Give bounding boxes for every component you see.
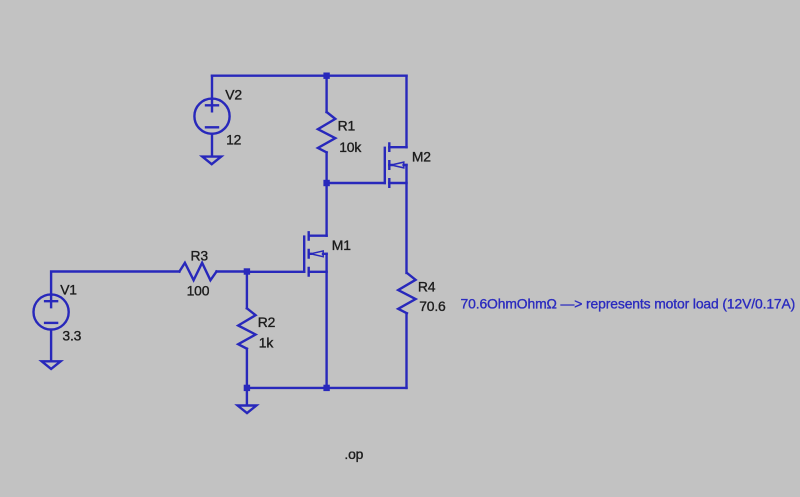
- wire R2 bottom lead: [246, 349, 248, 388]
- resistor R3: [179, 263, 216, 280]
- svg-text:R3: R3: [191, 248, 209, 264]
- svg-text:.op: .op: [344, 446, 363, 462]
- wire V2 top lead: [211, 76, 213, 99]
- ground (V2): [202, 157, 221, 165]
- ground (V1): [42, 361, 61, 369]
- wire M1 drain: [325, 183, 327, 236]
- wire M2 source to R4: [405, 165, 407, 273]
- resistor R1: [318, 112, 335, 152]
- wire R1 bottom lead: [325, 152, 327, 183]
- wire R1 top lead: [325, 76, 327, 112]
- transistor M1: [304, 232, 326, 275]
- svg-text:R2: R2: [258, 314, 276, 330]
- svg-text:R1: R1: [338, 118, 356, 134]
- transistor M2: [385, 144, 407, 187]
- svg-text:70.6OhmOhmΩ —> represents moto: 70.6OhmOhmΩ —> represents motor load (12…: [461, 295, 796, 311]
- wire V1 bottom lead: [50, 330, 52, 361]
- voltage source V1: [34, 294, 69, 329]
- svg-text:V2: V2: [225, 86, 242, 102]
- wire V2 bottom lead: [211, 134, 213, 157]
- svg-text:1k: 1k: [259, 335, 274, 351]
- ground (main): [238, 388, 257, 413]
- junction node R1 top: [323, 73, 329, 79]
- svg-text:70.6: 70.6: [419, 298, 446, 314]
- svg-text:3.3: 3.3: [62, 327, 81, 343]
- voltage source V2: [194, 99, 229, 134]
- wire M2 gate: [327, 182, 385, 184]
- wire R2 top lead: [246, 272, 248, 309]
- wire bottom rail: [247, 387, 407, 389]
- svg-text:100: 100: [187, 282, 210, 298]
- junction node gate M2: [323, 180, 329, 186]
- wire R4 bottom lead: [405, 313, 407, 388]
- wire M2 drain: [405, 76, 407, 148]
- wire M1 gate: [247, 271, 304, 273]
- resistor R4: [398, 273, 415, 313]
- wire V1 to R3: [51, 272, 179, 295]
- resistor R2: [238, 308, 255, 348]
- svg-text:R4: R4: [418, 278, 436, 294]
- svg-text:M2: M2: [412, 148, 431, 164]
- junction node R3/R2/M1 gate: [244, 268, 250, 274]
- svg-text:V1: V1: [60, 282, 77, 298]
- svg-text:12: 12: [226, 131, 242, 147]
- wire R3 to node: [217, 270, 247, 272]
- svg-text:M1: M1: [332, 237, 351, 253]
- wire top rail: [212, 74, 407, 76]
- junction node ground rail left: [244, 385, 250, 391]
- wire M1 source: [325, 254, 327, 388]
- junction node ground rail mid: [323, 385, 329, 391]
- svg-text:10k: 10k: [339, 139, 361, 155]
